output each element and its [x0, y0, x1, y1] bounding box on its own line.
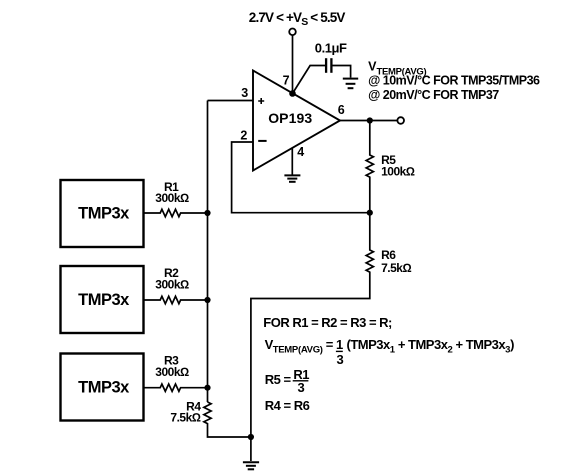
svg-text:2: 2 — [240, 128, 247, 142]
svg-text:FOR R1 = R2 = R3 = R;: FOR R1 = R2 = R3 = R; — [263, 315, 392, 330]
svg-text:R6: R6 — [381, 248, 396, 262]
svg-text:4: 4 — [297, 145, 304, 159]
svg-text:7: 7 — [283, 74, 290, 88]
svg-text:OP193: OP193 — [268, 110, 312, 126]
svg-text:TMP3x: TMP3x — [78, 378, 130, 396]
svg-text:300kΩ: 300kΩ — [155, 365, 189, 379]
svg-text:300kΩ: 300kΩ — [155, 191, 189, 205]
svg-text:@ 20mV/°C FOR TMP37: @ 20mV/°C FOR TMP37 — [368, 88, 499, 102]
svg-text:100kΩ: 100kΩ — [381, 165, 415, 179]
svg-text:@ 10mV/°C FOR TMP35/TMP36: @ 10mV/°C FOR TMP35/TMP36 — [368, 73, 540, 87]
svg-text:7.5kΩ: 7.5kΩ — [381, 261, 411, 275]
svg-text:7.5kΩ: 7.5kΩ — [170, 411, 200, 425]
svg-text:3: 3 — [241, 86, 248, 100]
svg-text:R5 =: R5 = — [265, 372, 292, 387]
svg-text:6: 6 — [338, 103, 345, 117]
svg-text:TMP3x: TMP3x — [78, 291, 130, 309]
svg-text:300kΩ: 300kΩ — [155, 278, 189, 292]
svg-text:0.1μF: 0.1μF — [315, 41, 347, 56]
svg-text:TMP3x: TMP3x — [78, 204, 130, 222]
svg-text:2.7V < +VS < 5.5V: 2.7V < +VS < 5.5V — [249, 10, 346, 28]
svg-text:R4 = R6: R4 = R6 — [265, 398, 310, 413]
svg-text:3: 3 — [298, 380, 305, 395]
svg-text:3: 3 — [337, 352, 344, 367]
